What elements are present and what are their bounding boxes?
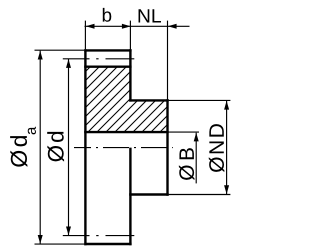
arrow B top bbox=[194, 133, 199, 142]
hub top extension right bbox=[169, 99, 231, 101]
hub right face bbox=[166, 99, 168, 196]
label OND bbox=[209, 124, 225, 172]
dia da extension bottom bbox=[35, 243, 85, 245]
arrow NL right bbox=[168, 24, 177, 29]
arrow d bottom bbox=[66, 227, 71, 236]
arrow ND bottom bbox=[224, 185, 229, 194]
dimension and extension lines (thin) bbox=[35, 21, 231, 245]
label Od bbox=[47, 132, 64, 162]
gear bottom (tip) edge bbox=[84, 243, 131, 245]
hub bottom extension right bbox=[169, 194, 231, 196]
b extension right bbox=[129, 21, 131, 50]
arrow b left bbox=[86, 24, 95, 29]
gear outline (thick) bbox=[84, 49, 169, 245]
pitch line bottom (dash-dot) bbox=[87, 235, 90, 237]
NL extension right bbox=[167, 21, 169, 100]
dia d extension top bbox=[63, 58, 87, 60]
tooth root line bbox=[84, 65, 131, 67]
hub top edge bbox=[129, 99, 169, 101]
bore extension right bbox=[169, 131, 199, 133]
arrow ND top bbox=[224, 101, 229, 110]
pitch line top (dash-dot) bbox=[87, 58, 90, 60]
step edge / gear right face below axis bbox=[129, 148, 131, 246]
label OB bbox=[179, 148, 195, 180]
dia ND dimension line bbox=[226, 101, 228, 194]
dia B dimension line bbox=[195, 133, 197, 184]
arrow da bottom bbox=[38, 235, 43, 244]
tip cylinder top edge bbox=[84, 49, 131, 51]
b extension left bbox=[84, 21, 86, 50]
gear left face bbox=[84, 49, 86, 245]
dia da dimension line bbox=[39, 51, 41, 244]
label b bbox=[103, 8, 112, 22]
dia d extension bottom bbox=[63, 235, 87, 237]
arrowheads bbox=[38, 24, 229, 244]
arrow b right / NL left bbox=[122, 24, 131, 29]
arrow d top bbox=[66, 59, 71, 68]
axis centerline (dash-dot) bbox=[74, 147, 173, 149]
dia da extension top bbox=[35, 49, 85, 51]
label Oda bbox=[10, 127, 36, 167]
gear right face (upper) bbox=[129, 49, 131, 101]
label NL bbox=[139, 9, 161, 22]
dia d dimension line bbox=[68, 59, 70, 235]
bore top edge bbox=[84, 131, 169, 133]
top dimension line (b and NL) bbox=[85, 25, 190, 27]
hub bottom edge bbox=[129, 193, 169, 195]
hatch section lines bbox=[14, 63, 238, 134]
arrow da top bbox=[38, 51, 43, 60]
